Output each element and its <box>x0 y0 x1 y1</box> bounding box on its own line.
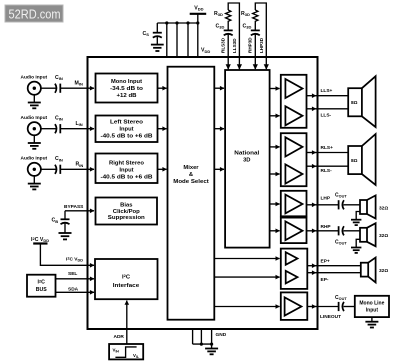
wire mixer to EP+ amp <box>214 258 279 260</box>
svg-text:RLS3D: RLS3D <box>221 37 226 53</box>
audio input jack J1 (mono) <box>21 75 48 103</box>
svg-text:CIN: CIN <box>55 116 63 122</box>
wire ADR <box>126 301 128 344</box>
svg-text:52RD.com: 52RD.com <box>9 7 61 22</box>
svg-text:BYPASS: BYPASS <box>64 204 84 210</box>
svg-text:R3D: R3D <box>214 11 223 17</box>
block national 3D <box>225 70 270 248</box>
svg-text:Right Stereo: Right Stereo <box>109 161 144 167</box>
block mono input gain <box>96 74 158 103</box>
wire 3D to RHP amp <box>270 230 280 232</box>
wire LHP speaker to ground <box>356 212 360 220</box>
wire J2 to CIN <box>41 128 56 130</box>
wire mixer to 3D row 2 <box>214 128 224 130</box>
svg-text:Mono Input: Mono Input <box>111 79 142 85</box>
wire LIN into chip <box>61 128 94 130</box>
capacitor COUT (LHP) <box>335 193 347 210</box>
ground (J3) <box>28 184 41 190</box>
svg-text:ADR: ADR <box>114 334 125 340</box>
node VDD supply <box>190 5 207 14</box>
svg-text:I2C: I2C <box>122 273 131 280</box>
svg-text:LLS+: LLS+ <box>321 88 333 94</box>
capacitor CB <box>52 211 70 233</box>
wire LLS- output to speaker <box>307 108 317 110</box>
wire SEL <box>56 278 95 280</box>
svg-text:CIN: CIN <box>55 156 63 162</box>
svg-text:RHP: RHP <box>321 224 332 230</box>
svg-text:8Ω: 8Ω <box>351 158 358 164</box>
ground (GND pins) <box>205 349 218 355</box>
block left stereo input gain <box>96 116 158 143</box>
svg-text:RLS+: RLS+ <box>321 145 334 151</box>
3D network pair 1 top bridge wire <box>228 3 239 57</box>
wire MIN into chip <box>61 87 94 89</box>
ground (CS) <box>151 45 164 51</box>
svg-text:EP-: EP- <box>321 277 329 283</box>
wire J1 to CIN <box>41 87 56 89</box>
svg-text:BUS: BUS <box>36 287 47 293</box>
wire EP+ output to speaker <box>307 265 316 267</box>
wire LLS3D pin into chip <box>238 57 240 69</box>
speaker EP 32 ohm <box>361 258 389 283</box>
wire RLS+ output to speaker <box>307 152 317 154</box>
amplifier lineout <box>281 292 308 320</box>
wire VDD pin drop 1 <box>166 23 168 57</box>
svg-text:CB: CB <box>52 218 59 224</box>
wire LINEOUT output <box>307 306 316 308</box>
svg-text:LINEOUT: LINEOUT <box>320 314 341 320</box>
wire VDD pin drop 2 <box>176 23 178 57</box>
svg-text:Audio Input: Audio Input <box>21 75 48 81</box>
block right stereo input gain <box>96 154 158 184</box>
wire COUT to LHP speaker <box>344 204 361 206</box>
svg-text:-34.5 dB to: -34.5 dB to <box>110 86 144 92</box>
amplifier pair RLS (speaker amps) <box>281 133 307 186</box>
block mono line input <box>355 296 389 317</box>
svg-text:VDD: VDD <box>201 48 210 54</box>
wire EP- output to speaker <box>307 272 316 274</box>
block I2C BUS <box>27 275 56 297</box>
svg-text:Bias: Bias <box>120 203 132 209</box>
svg-text:32Ω: 32Ω <box>379 205 388 211</box>
svg-text:Input: Input <box>119 168 133 174</box>
wire GND pin 1 <box>192 329 194 344</box>
svg-text:Input: Input <box>119 127 133 133</box>
wire J3 to CIN <box>41 168 56 170</box>
capacitor C3D (pair 1) <box>216 24 233 36</box>
wire VDD bus <box>157 22 198 24</box>
svg-text:LIN: LIN <box>76 121 83 127</box>
wire right block to mixer <box>158 168 167 170</box>
junction dots on VDD bus <box>165 21 199 24</box>
wire SDA <box>56 291 95 293</box>
wire mono block to mixer <box>158 87 167 89</box>
svg-text:Audio Input: Audio Input <box>21 115 48 121</box>
amplifier pair EP (earpiece amps) <box>281 249 308 289</box>
amplifier RHP (headphone amp) <box>281 218 307 244</box>
svg-text:SDA: SDA <box>68 287 79 293</box>
ground (RHP speaker) <box>351 248 361 253</box>
svg-text:RLS-: RLS- <box>321 168 333 174</box>
block mixer and mode select <box>168 67 215 320</box>
wire RLS3D pin into chip <box>227 35 229 70</box>
wire VDD pin drop 3 <box>187 23 189 57</box>
svg-text:National: National <box>234 151 259 157</box>
svg-text:Input: Input <box>366 308 379 314</box>
svg-text:VIL: VIL <box>133 353 139 359</box>
svg-text:COUT: COUT <box>335 240 347 246</box>
capacitor CIN (right) <box>55 156 63 174</box>
svg-text:LHP3D: LHP3D <box>259 37 264 53</box>
wire LHP3D pin into chip <box>265 57 267 69</box>
wire RLS- output to speaker <box>307 165 317 167</box>
wire mixer to 3D row 1 <box>214 87 224 89</box>
svg-text:RHP3D: RHP3D <box>248 37 253 53</box>
wire COUT to mono line input box <box>344 306 355 308</box>
wire 3D to LLS- amp <box>270 115 280 117</box>
wire mixer to EP- amp <box>214 276 279 278</box>
svg-text:I2C VDD: I2C VDD <box>66 256 83 262</box>
wire RHP3D pin into chip <box>254 35 256 70</box>
svg-text:32Ω: 32Ω <box>379 268 388 274</box>
3D network pair 2 top bridge wire <box>255 3 266 57</box>
wire GND pin 3 <box>211 329 213 349</box>
svg-text:-40.5 dB to +6 dB: -40.5 dB to +6 dB <box>101 134 153 140</box>
wire mixer to lineout amp <box>214 306 279 308</box>
svg-text:SEL: SEL <box>68 271 77 277</box>
svg-text:LLS3D: LLS3D <box>232 38 237 53</box>
node I2C VDD supply <box>31 236 49 244</box>
svg-text:COUT: COUT <box>335 295 347 301</box>
speaker RLS 8 ohm <box>348 134 375 185</box>
svg-text:32Ω: 32Ω <box>379 233 388 239</box>
capacitor COUT (lineout) <box>335 295 347 311</box>
capacitor COUT (RHP) <box>335 226 347 246</box>
audio input jack J3 (right) <box>21 155 48 183</box>
wire mono line input to ground <box>371 317 373 322</box>
svg-text:CIN: CIN <box>55 75 63 81</box>
svg-text:VIH: VIH <box>113 347 120 353</box>
svg-text:3D: 3D <box>243 158 250 164</box>
watermark 52RD.com <box>5 5 63 22</box>
wire mixer to 3D row 3 <box>214 168 224 170</box>
wire I2C VDD to interface <box>40 244 94 266</box>
svg-text:RIN: RIN <box>76 162 84 168</box>
svg-text:I2C VDD: I2C VDD <box>31 236 49 243</box>
svg-text:Mono Line: Mono Line <box>359 301 384 307</box>
svg-text:Mixer: Mixer <box>183 165 199 171</box>
svg-text:Audio Input: Audio Input <box>21 155 48 161</box>
block bias click/pop suppression <box>96 198 158 225</box>
block I2C interface <box>95 259 158 299</box>
wire GND bridge <box>193 343 212 345</box>
capacitor CIN (mono) <box>55 75 63 93</box>
svg-text:LHP: LHP <box>321 196 331 202</box>
svg-text:MIN: MIN <box>75 81 83 87</box>
svg-text:C3D: C3D <box>243 24 252 30</box>
ground (CB) <box>59 233 72 239</box>
audio input jack J2 (left) <box>21 115 48 143</box>
svg-text:VDD: VDD <box>194 5 203 11</box>
speaker LHP 32 ohm <box>360 195 388 218</box>
capacitor C3D (pair 2) <box>243 24 260 36</box>
ground (J1) <box>28 103 41 109</box>
speaker LLS 8 ohm <box>348 76 375 127</box>
svg-text:Click/Pop: Click/Pop <box>113 209 140 215</box>
amplifier LHP (headphone amp) <box>281 191 307 217</box>
wire COUT to RHP speaker <box>344 230 361 232</box>
svg-text:&: & <box>189 172 193 178</box>
svg-text:Interface: Interface <box>113 283 140 289</box>
junction dots GND <box>200 343 213 346</box>
svg-text:Left Stereo: Left Stereo <box>110 120 143 126</box>
ground (LHP speaker) <box>351 220 361 225</box>
IC chip outline U1 <box>88 57 318 329</box>
ground (mono line input) <box>365 322 378 328</box>
wire LHP output <box>307 204 317 206</box>
svg-text:COUT: COUT <box>335 193 347 199</box>
svg-text:EP+: EP+ <box>321 259 330 265</box>
svg-text:Suppression: Suppression <box>108 215 145 221</box>
wire RIN into chip <box>61 168 94 170</box>
svg-text:Mode Select: Mode Select <box>173 179 209 185</box>
svg-text:GND: GND <box>216 332 227 338</box>
svg-text:+12 dB: +12 dB <box>117 93 137 99</box>
svg-text:C3D: C3D <box>216 24 225 30</box>
svg-text:CS: CS <box>143 31 150 37</box>
svg-text:8Ω: 8Ω <box>351 100 358 106</box>
svg-text:R3D: R3D <box>241 11 250 17</box>
capacitor CIN (left) <box>55 116 63 134</box>
wire 3D to LLS+ amp <box>270 88 280 90</box>
wire VDD vertical to pin <box>197 14 199 57</box>
wire 3D to LHP amp <box>270 203 280 205</box>
resistor R3D (pair 1) <box>214 10 231 30</box>
svg-text:I2C: I2C <box>37 278 45 285</box>
svg-text:-40.5 dB to +6 dB: -40.5 dB to +6 dB <box>101 175 153 181</box>
svg-text:LLS-: LLS- <box>321 113 332 119</box>
wire RHP output <box>307 230 317 232</box>
resistor R3D (pair 2) <box>241 10 258 30</box>
ground (J2) <box>28 143 41 149</box>
wire 3D to RLS- amp <box>270 173 280 175</box>
wire 3D to RLS+ amp <box>270 146 280 148</box>
logic level source box (VIH/VIL) <box>109 344 143 359</box>
speaker RHP 32 ohm <box>360 223 388 246</box>
wire GND pin 2 <box>200 329 202 344</box>
wire BYPASS <box>65 210 94 212</box>
amplifier pair LLS (speaker amps) <box>281 75 307 128</box>
capacitor CS <box>143 23 162 45</box>
wire LLS+ output to speaker <box>307 95 317 97</box>
wire RHP speaker to ground <box>356 239 360 247</box>
wire left block to mixer <box>158 128 167 130</box>
